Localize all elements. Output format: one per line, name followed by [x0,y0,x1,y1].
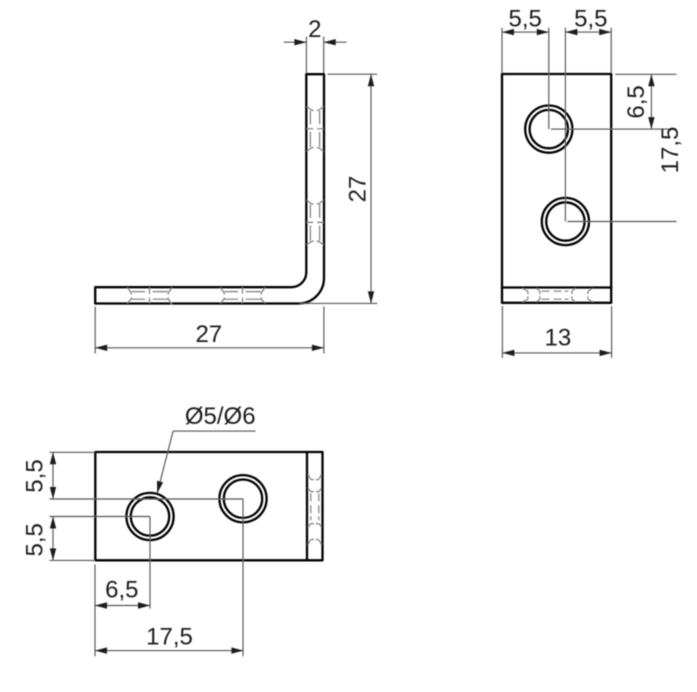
dim 27 (height) bottom extension line [300,302,378,304]
front view: plate outline [502,74,611,303]
svg-text:Ø5/Ø6: Ø5/Ø6 [185,403,256,430]
dim 27 (height) arrow up [368,74,374,86]
bend band hidden hole contours (top view) [308,474,321,544]
hole upper: outer circle [525,106,572,153]
dim 27 (length) arrow right [312,345,324,351]
svg-text:5,5: 5,5 [574,5,607,32]
right side extension line from top edge [615,73,676,75]
svg-text:27: 27 [195,321,222,348]
hole right: outer circle [219,475,266,522]
top view: bend tangent line [306,452,308,560]
hole left: inner circle [131,497,169,535]
dim 2 arrow right [324,39,336,45]
front view: bend tangent line [502,286,611,288]
svg-text:5,5: 5,5 [22,523,49,556]
dim 5,5 right dimension line [565,31,611,33]
dim 27 (height) arrow down [368,291,374,303]
dim 5,5 left dimension line [502,31,549,33]
bend band hidden hole contours (front view) [523,288,593,302]
dim 2 dimension line left [284,41,307,43]
hole left: outer circle [126,493,173,540]
side view: L-profile outline [95,74,324,303]
top dims extension lines [501,28,503,73]
dim 2 (thickness) extension lines [305,37,307,73]
dim 5,5 upper dimension line [52,452,54,499]
dim 27 (length) dimension line [95,347,324,349]
dim 13 dimension line [502,352,611,354]
dim 6,5 dimension line [95,605,150,607]
vertical-leg hole 1 hidden contour [307,107,324,152]
dim 13 extension lines [501,306,503,358]
horizontal-leg hole 2 hidden contour [220,287,265,303]
dim 27 (height) top extension line [328,73,378,75]
hole size label leader shoulder [173,430,255,432]
dim 27 (length) arrow left [95,345,107,351]
svg-text:6,5: 6,5 [105,576,138,603]
bottom dims extension lines [94,565,96,657]
dim 2 dimension line right [324,41,347,43]
svg-text:2: 2 [308,16,321,43]
svg-text:6,5: 6,5 [623,85,650,118]
svg-text:5,5: 5,5 [22,459,49,492]
dim 5,5 lower dimension line [52,517,54,561]
vertical-leg hole 2 hidden contour [307,200,324,245]
hole size label leader line [157,431,173,493]
svg-text:13: 13 [545,325,572,352]
hole lower: outer circle [542,198,589,245]
hole upper: inner circle [530,110,568,148]
dim 17,5 dimension line [95,650,243,652]
dim 27 (length) extension lines [94,307,96,354]
svg-text:17,5: 17,5 [146,624,193,651]
centre line hole upper to right [551,128,677,130]
svg-text:17,5: 17,5 [657,127,684,174]
top view: plate outline [95,452,322,560]
left dims extension lines [50,451,96,453]
horizontal-leg hole 1 hidden contour [127,287,172,304]
hole lower: inner circle [546,202,584,240]
svg-text:5,5: 5,5 [509,5,542,32]
hole right: inner circle [224,480,262,518]
hole size label leader arrow [157,481,163,493]
centre line hole lower to right [567,221,676,223]
svg-text:27: 27 [345,176,372,203]
dim 6,5 dimension line [650,74,652,129]
dim 2 arrow left [294,39,306,45]
dim 27 (height) dimension line [370,74,372,303]
